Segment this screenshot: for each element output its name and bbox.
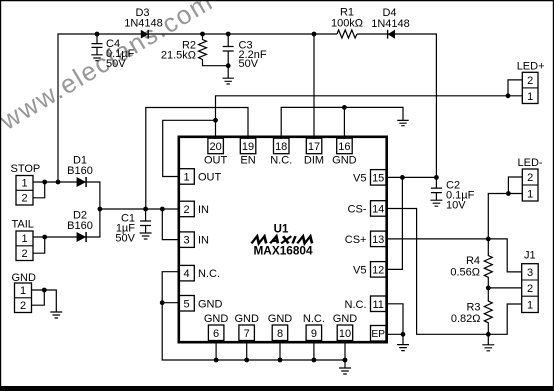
svg-text:4: 4 (183, 268, 189, 280)
wire pin 15 V5 (386, 176, 436, 178)
pin 2 box IN (179, 201, 209, 217)
connector LED- (518, 157, 543, 201)
svg-text:1N4148: 1N4148 (124, 18, 163, 30)
svg-text:IN: IN (198, 204, 209, 216)
wire pin 7 lead (246, 341, 248, 361)
node junction dot CS+ R4 (486, 237, 491, 242)
svg-text:1N4148: 1N4148 (371, 18, 410, 30)
resistor R1 100k (337, 30, 357, 38)
wire J1 pin3 (488, 239, 521, 272)
svg-text:8: 8 (277, 328, 283, 340)
label C2 value (446, 180, 475, 212)
label C1 value (115, 213, 135, 245)
svg-text:19: 19 (242, 141, 254, 153)
node junction dot R2 top (200, 32, 205, 37)
node junction dot OUT pins tie (213, 118, 218, 123)
svg-text:CS-: CS- (348, 204, 367, 216)
node junction dot D1 D2 join (98, 207, 103, 212)
svg-text:IN: IN (198, 235, 209, 247)
pin 7 box GND bottom (234, 313, 259, 341)
pin 19 box EN top (240, 138, 256, 166)
ground below C2 (430, 200, 442, 206)
wire pin 13 CS+ (386, 238, 488, 240)
svg-text:2: 2 (20, 300, 26, 312)
resistor R2 21.5k (199, 34, 229, 66)
svg-text:V5: V5 (353, 264, 366, 276)
ground below bus (339, 368, 351, 374)
svg-text:DIM: DIM (304, 155, 324, 167)
node junction dot V5 C2 (434, 175, 439, 180)
node junction dot pin10 bus (343, 358, 348, 363)
node junction dot pin8 bus (278, 358, 283, 363)
node junction dot GND stub (42, 288, 47, 293)
svg-text:6: 6 (213, 328, 219, 340)
pin 4 box N.C. (179, 265, 220, 281)
pin 12 box V5 right (353, 262, 386, 278)
connector TAIL (12, 219, 34, 261)
svg-text:B160: B160 (67, 220, 93, 232)
svg-text:1: 1 (527, 188, 533, 200)
svg-text:18: 18 (275, 141, 287, 153)
svg-text:2: 2 (527, 172, 533, 184)
pin EP box bottom right (371, 326, 387, 342)
wire top rail from STOP branch corner to D4 corner (58, 34, 436, 182)
label D4 (371, 7, 410, 30)
svg-text:11: 11 (372, 299, 383, 311)
ground below GND connector (50, 312, 62, 318)
ground below C1 (140, 233, 152, 239)
svg-text:14: 14 (372, 204, 384, 216)
svg-text:5: 5 (183, 298, 189, 310)
wire EP lead (386, 333, 403, 335)
svg-text:2: 2 (527, 283, 533, 295)
svg-text:20: 20 (209, 141, 221, 153)
node junction dot DIM R1 (312, 32, 317, 37)
svg-text:J1: J1 (524, 250, 536, 262)
watermark www.elecfans.com (0, 0, 218, 136)
ground below C3 (223, 78, 234, 84)
wire LED+ pin2 stub (508, 80, 522, 96)
svg-text:EN: EN (240, 155, 255, 167)
capacitor C3 (223, 34, 234, 78)
svg-text:2: 2 (21, 193, 27, 205)
wire J1 pin2 (488, 287, 521, 289)
svg-text:13: 13 (372, 234, 384, 246)
svg-text:16: 16 (338, 141, 350, 153)
wire pin 9 lead (313, 341, 315, 361)
svg-text:50V: 50V (115, 233, 135, 245)
connector GND (12, 272, 37, 313)
label D3 (124, 7, 163, 30)
MAXIM logo (251, 236, 313, 243)
svg-text:1: 1 (527, 299, 533, 311)
pin 14 box CS- right (348, 201, 386, 217)
pin 5 box GND (179, 296, 223, 312)
resistor R4 0.56 (484, 239, 492, 288)
svg-text:100kΩ: 100kΩ (331, 18, 363, 30)
svg-text:1: 1 (21, 233, 27, 245)
ground below R3 (482, 334, 494, 351)
capacitor C2 (431, 177, 442, 200)
wire pin 11 to EP net (386, 304, 403, 335)
wire GND connector to ground (32, 290, 57, 312)
svg-text:V5: V5 (353, 172, 366, 184)
wire pin 6 lead (215, 341, 217, 361)
label C4 value (106, 38, 135, 70)
node junction dot EP (401, 332, 406, 337)
node junction dot pin3 stub (160, 207, 165, 212)
pin 18 box N.C. top (270, 138, 292, 166)
svg-text:B160: B160 (67, 165, 93, 177)
svg-text:2: 2 (183, 204, 189, 216)
pin 17 box DIM top (304, 138, 324, 166)
svg-text:3: 3 (527, 267, 533, 279)
svg-text:OUT: OUT (198, 172, 222, 184)
node junction dot pin5 (160, 300, 165, 305)
node junction dot R3 bottom (486, 332, 491, 337)
ground below C4 (91, 55, 102, 61)
node junction dot C3 top (226, 32, 231, 37)
svg-text:OUT: OUT (204, 155, 228, 167)
label R2 value (161, 40, 196, 62)
op-amp U1 MAX16804 IC body (179, 137, 387, 342)
pin 1 box OUT (179, 169, 222, 185)
svg-text:GND: GND (198, 298, 223, 310)
wire LED+ rail from pin 20 (216, 96, 523, 139)
node junction dot V5 left (400, 175, 405, 180)
wire LED- pin1 to CS+ node (488, 194, 522, 239)
svg-text:EP: EP (371, 329, 385, 340)
wire pin 8 lead (279, 341, 281, 361)
svg-text:50V: 50V (106, 58, 126, 70)
svg-text:GND: GND (12, 272, 37, 284)
svg-text:1: 1 (20, 285, 26, 297)
wire pin 5 stub (162, 302, 179, 304)
svg-text:GND: GND (333, 313, 358, 325)
svg-text:3: 3 (183, 235, 189, 247)
ground for pins 16 18 (397, 120, 408, 125)
svg-text:17: 17 (308, 141, 320, 153)
connector LED+ (517, 61, 545, 104)
wire pin 14 CS- to sense low (386, 209, 522, 335)
capacitor C1 (140, 209, 151, 233)
node junction dot C4 top (95, 32, 100, 37)
svg-text:GND: GND (234, 313, 259, 325)
connector J1 (522, 250, 539, 313)
diode D4 1N4148 (388, 30, 395, 39)
svg-text:2: 2 (527, 75, 533, 87)
wire STOP pin2 stub (33, 182, 45, 198)
node junction dot pin 16 gnd (342, 105, 347, 110)
wire pin 19 EN to IN node (146, 108, 248, 210)
label R4 value (450, 255, 480, 279)
svg-text:GND: GND (332, 155, 357, 167)
svg-text:7: 7 (244, 328, 250, 340)
wire pin 4 pin 5 tie to bottom bus (162, 272, 345, 360)
svg-text:U1: U1 (274, 224, 289, 236)
diode D2 B160 (77, 232, 87, 242)
svg-text:0.56Ω: 0.56Ω (450, 267, 480, 279)
svg-text:STOP: STOP (11, 163, 41, 175)
pin 3 box IN (179, 232, 209, 248)
svg-text:GND: GND (268, 313, 293, 325)
label R3 value (451, 302, 481, 326)
wire pin 10 lead (344, 341, 346, 369)
pin 6 box GND bottom (204, 313, 229, 341)
svg-text:0.82Ω: 0.82Ω (451, 313, 481, 325)
svg-text:1: 1 (183, 172, 189, 184)
svg-text:21.5kΩ: 21.5kΩ (161, 50, 196, 62)
svg-text:CS+: CS+ (345, 234, 367, 246)
pin 15 box V5 right (353, 170, 386, 186)
svg-text:N.C.: N.C. (198, 268, 220, 280)
svg-text:TAIL: TAIL (12, 219, 34, 231)
node junction dot LED- (506, 191, 511, 196)
node junction dot pin9 bus (312, 358, 317, 363)
node junction dot STOP rail (56, 180, 61, 185)
svg-text:15: 15 (372, 172, 384, 184)
diode D1 B160 (77, 177, 87, 187)
svg-text:1: 1 (21, 178, 27, 190)
wire pin 3 stub (162, 209, 179, 240)
pin 8 box GND bottom (268, 313, 293, 341)
wire STOP to D1 to IN corner (33, 182, 100, 209)
label D1 (67, 155, 93, 178)
pin 11 box N.C. right (345, 296, 387, 312)
node junction dot STOP stub (42, 180, 47, 185)
node junction dot R4 R3 (486, 286, 491, 291)
pin 9 box N.C. bottom (303, 313, 325, 341)
svg-text:N.C.: N.C. (270, 155, 292, 167)
node junction dot C1 top (143, 207, 148, 212)
svg-text:10: 10 (339, 328, 351, 340)
wire TAIL pin2 stub (33, 237, 45, 253)
label R1 value (331, 7, 363, 30)
label D2 (67, 210, 93, 233)
wire LED- pin2 stub (508, 177, 522, 194)
svg-text:2: 2 (21, 248, 27, 260)
svg-text:N.C.: N.C. (303, 313, 325, 325)
node junction dot C3 bottom (226, 63, 231, 68)
capacitor C4 (92, 34, 103, 55)
wire DIM drop to pin 17 (313, 34, 315, 139)
wire V5 pin15 to pin12 (386, 177, 402, 269)
wire IN rail to pin 2 (100, 208, 179, 210)
diode D3 1N4148 (141, 30, 148, 39)
svg-text:10V: 10V (446, 200, 466, 212)
node junction dot LED+ (506, 93, 511, 98)
pin 10 box GND bottom (333, 313, 358, 341)
svg-text:1: 1 (527, 91, 533, 103)
svg-text:GND: GND (204, 313, 229, 325)
wire pin 18 to ground rail (281, 107, 403, 139)
wire GND pin2 stub (32, 290, 45, 305)
svg-text:R3: R3 (466, 302, 480, 314)
svg-text:LED+: LED+ (517, 61, 545, 73)
svg-text:LED-: LED- (518, 157, 543, 169)
connector STOP (11, 163, 41, 205)
wire pin 1 OUT loop (163, 120, 216, 176)
svg-text:N.C.: N.C. (345, 299, 367, 311)
ground below EP (397, 334, 409, 350)
node junction dot TAIL stub (42, 235, 47, 240)
wire TAIL to D2 to IN corner (33, 209, 100, 237)
node junction dot pin6 bus (214, 358, 219, 363)
label C3 value (239, 40, 267, 71)
svg-text:9: 9 (311, 328, 317, 340)
svg-text:R4: R4 (466, 255, 480, 267)
svg-text:50V: 50V (239, 58, 259, 70)
pin 13 box CS+ right (345, 231, 386, 247)
svg-text:12: 12 (372, 264, 384, 276)
pin 16 box GND top (332, 138, 357, 166)
pin 20 box OUT top (204, 138, 228, 166)
resistor R3 0.82 (484, 288, 492, 334)
wire pin 16 to ground rail (343, 107, 345, 139)
node junction dot pin7 bus (244, 358, 249, 363)
